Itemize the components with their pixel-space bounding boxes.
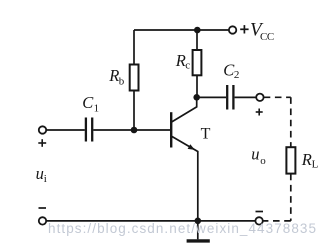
transistor T base bar: [170, 112, 172, 147]
node top (Rb/Rc/Vcc junction): [194, 27, 201, 34]
node base junction: [131, 127, 138, 134]
svg-text:R: R: [108, 66, 119, 85]
transistor T emitter arrow: [188, 144, 195, 150]
wire dashed output top: [264, 96, 291, 98]
node collector junction: [193, 94, 200, 101]
svg-text:c: c: [185, 60, 190, 72]
wire bottom rail: [46, 220, 255, 222]
svg-text:L: L: [312, 159, 319, 171]
wire C1 to base: [93, 129, 170, 131]
resistor Rc: [193, 50, 202, 75]
label ui: [36, 164, 47, 185]
wire Rc top stem: [196, 30, 198, 50]
svg-text:u: u: [251, 145, 259, 164]
wire Rb bottom stem: [133, 91, 135, 131]
svg-text:R: R: [301, 150, 312, 169]
node emitter/ground junction: [195, 218, 202, 225]
label +Vcc: [240, 20, 274, 43]
label RL: [301, 150, 319, 170]
wire C2 to output terminal: [235, 96, 257, 98]
resistor RL: [286, 147, 295, 173]
label C1: [82, 93, 99, 114]
svg-text:u: u: [36, 164, 44, 183]
capacitor C2: [227, 85, 233, 110]
resistor Rb: [130, 65, 139, 91]
svg-text:2: 2: [234, 69, 240, 81]
svg-text:b: b: [119, 76, 125, 88]
svg-text:https://blog.csdn.net/weixin_4: https://blog.csdn.net/weixin_44378835: [48, 221, 316, 236]
transistor T collector wire: [172, 97, 197, 122]
label input minus: [39, 207, 47, 209]
wire top rail: [134, 29, 229, 31]
terminal input +: [39, 126, 46, 133]
terminal output bottom: [255, 217, 262, 224]
svg-text:T: T: [201, 125, 211, 142]
ground: [187, 221, 210, 241]
transistor T emitter wire: [172, 136, 198, 220]
wire input to C1: [46, 129, 85, 131]
terminal output +: [256, 94, 263, 101]
capacitor C1: [86, 118, 92, 142]
label output plus: [256, 109, 263, 116]
label Rc: [175, 51, 190, 72]
svg-text:CC: CC: [260, 31, 274, 43]
wire dashed right upper: [290, 97, 292, 147]
label output minus: [256, 211, 264, 213]
label input plus: [38, 139, 46, 147]
wire dashed right lower: [290, 174, 292, 221]
wire collector to C2: [197, 96, 226, 98]
svg-text:1: 1: [94, 102, 100, 114]
wire Rb top stem: [133, 30, 135, 65]
label uo: [251, 145, 266, 167]
terminal input bottom: [39, 217, 46, 224]
label C2: [223, 61, 239, 82]
svg-text:o: o: [260, 155, 266, 167]
svg-text:C: C: [82, 93, 94, 112]
label Rb: [108, 66, 125, 87]
svg-text:i: i: [44, 173, 47, 185]
terminal +Vcc: [229, 26, 236, 33]
wire Rc bottom stem: [196, 75, 198, 97]
wire dashed bottom right: [263, 220, 291, 222]
